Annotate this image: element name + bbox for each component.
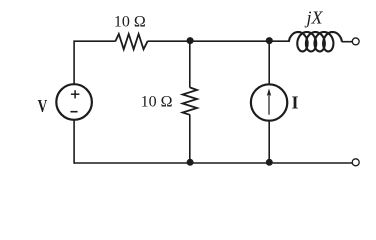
wire: right branch, upper <box>268 40 270 84</box>
voltage source plus sign <box>71 90 80 98</box>
wire: middle branch, lower <box>189 115 191 164</box>
voltage source minus sign <box>70 111 77 113</box>
svg-text:jX: jX <box>305 7 324 27</box>
open terminal (top right) <box>352 38 359 45</box>
svg-text:10 Ω: 10 Ω <box>114 14 146 31</box>
open terminal (bottom right) <box>352 159 359 166</box>
wire: top rail, middle segment <box>147 40 289 42</box>
resistor 10 ohm (series, top) <box>115 34 147 49</box>
wire: middle branch, upper <box>189 40 191 87</box>
wire: left branch, lower <box>73 120 75 164</box>
junction node (bottom, right) <box>266 159 273 166</box>
wire: left branch, upper <box>73 40 75 84</box>
wire: right branch, lower <box>268 121 270 164</box>
junction node (top, right) <box>266 37 273 44</box>
resistor 10 ohm (shunt, middle) <box>183 87 197 114</box>
wire: inductor to terminal <box>342 41 352 43</box>
svg-text:I: I <box>292 93 299 113</box>
current source arrow (upward) <box>267 88 271 114</box>
svg-text:10 Ω: 10 Ω <box>141 94 173 111</box>
voltage source V (circle) <box>56 84 92 120</box>
svg-text:V: V <box>38 97 48 116</box>
junction node (bottom, middle) <box>187 159 194 166</box>
junction node (top, middle) <box>187 37 194 44</box>
wire: top rail, left segment <box>74 40 116 42</box>
wire: bottom rail <box>74 162 352 164</box>
inductor jX (coil) <box>289 32 342 51</box>
current source I (circle) <box>251 84 287 120</box>
